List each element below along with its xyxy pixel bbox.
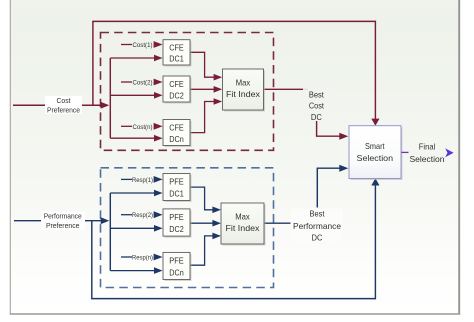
dashed group box (performance / PFE group) bbox=[101, 168, 274, 288]
svg-text:CFE: CFE bbox=[169, 123, 184, 133]
arrowhead into PFE DC2 lower left bbox=[154, 225, 163, 232]
arrowhead down into smart selection top bbox=[371, 119, 379, 126]
wire: feed to CFE DC1 bbox=[110, 57, 155, 59]
svg-text:Selection: Selection bbox=[410, 154, 445, 164]
arrowhead Cost(2) into CFE DC2 bbox=[154, 79, 163, 86]
svg-text:Cost(1): Cost(1) bbox=[133, 42, 153, 49]
wire: feed to PFE DC1 bbox=[110, 192, 155, 194]
svg-text:Best: Best bbox=[310, 209, 326, 219]
block smart selection bbox=[349, 126, 403, 180]
block CFE DCn bbox=[163, 120, 192, 148]
wire: PFE DC2 output to max fit index bbox=[190, 222, 215, 224]
dashed group box (cost / CFE group) bbox=[101, 33, 274, 151]
arrowhead into PFE DCn lower left bbox=[154, 267, 163, 274]
svg-text:CFE: CFE bbox=[169, 79, 184, 89]
wire: Best Performance DC to smart selection bbox=[317, 168, 341, 207]
wire: cost distribution vertical bbox=[109, 58, 111, 138]
wire: cost max fit index output to Best Cost DC bbox=[264, 88, 308, 90]
wire: cost preference main line bbox=[13, 104, 105, 106]
arrowhead into CFE DC2 lower left bbox=[154, 92, 163, 99]
wire: Resp(2) input stub bbox=[121, 214, 132, 216]
svg-text:Performance: Performance bbox=[44, 211, 82, 220]
wire: Resp(n) input stub bbox=[121, 256, 132, 258]
wire: smart selection output stub (purple) bbox=[401, 151, 408, 153]
arrowhead into perf max fit index (mid input) bbox=[212, 220, 221, 227]
block CFE DC1 bbox=[163, 40, 192, 67]
wire: perf max fit index output to Best Performance DC bbox=[264, 222, 291, 224]
svg-text:PFE: PFE bbox=[169, 177, 184, 187]
block cost max fit index bbox=[223, 69, 266, 112]
arrowhead into CFE DCn lower left bbox=[154, 135, 163, 142]
svg-text:DC1: DC1 bbox=[169, 188, 184, 198]
block PFE DC1 bbox=[163, 174, 192, 203]
svg-text:Resp(1): Resp(1) bbox=[132, 177, 153, 184]
node label final selection bbox=[410, 141, 445, 164]
arrowhead into CFE DC1 lower left bbox=[154, 55, 163, 62]
arrowhead Resp(1) into PFE DC1 bbox=[154, 176, 163, 183]
arrowhead into perf max fit index (top input) bbox=[212, 207, 221, 214]
wire: CFE DCn output to max fit index bbox=[190, 102, 215, 133]
wire: CFE DC2 output to max fit index bbox=[190, 88, 215, 90]
svg-text:DC2: DC2 bbox=[169, 90, 184, 100]
frame right border bbox=[458, 0, 460, 315]
wire: PFE DC1 output to max fit index bbox=[190, 187, 215, 210]
svg-text:Performance: Performance bbox=[293, 221, 341, 231]
arrowhead into cost distribution node bbox=[101, 102, 110, 109]
svg-text:Cost: Cost bbox=[309, 101, 325, 111]
svg-text:DCn: DCn bbox=[169, 134, 184, 144]
node label cost preference bbox=[45, 96, 82, 115]
arrowhead Resp(n) into PFE DCn bbox=[154, 254, 163, 261]
wire: Resp(1) input stub bbox=[121, 178, 132, 180]
svg-text:Cost(n): Cost(n) bbox=[133, 124, 153, 131]
svg-text:Best: Best bbox=[309, 89, 325, 99]
arrowhead into perf max fit index (bottom input) bbox=[212, 233, 221, 240]
arrowhead final selection (purple) bbox=[445, 148, 453, 157]
svg-text:Selection: Selection bbox=[357, 153, 394, 163]
frame left border bbox=[9, 0, 11, 315]
svg-text:Smart: Smart bbox=[365, 141, 385, 151]
wire: feed to PFE DC2 bbox=[110, 227, 155, 229]
svg-text:PFE: PFE bbox=[169, 256, 184, 266]
svg-text:Final: Final bbox=[419, 141, 436, 151]
block CFE DC2 bbox=[163, 76, 192, 104]
arrowhead Cost(n) into CFE DCn bbox=[154, 123, 163, 130]
svg-text:Cost(2): Cost(2) bbox=[133, 80, 153, 87]
arrowhead Cost(1) into CFE DC1 bbox=[154, 41, 163, 48]
block performance max fit index bbox=[221, 203, 266, 246]
wire: feed to CFE DCn bbox=[110, 137, 155, 139]
wire: Best Cost DC to smart selection bbox=[317, 121, 341, 136]
arrowhead into max fit index (mid input) bbox=[214, 86, 223, 93]
svg-text:Preference: Preference bbox=[46, 221, 80, 230]
block PFE DC2 bbox=[163, 209, 192, 238]
svg-text:Cost: Cost bbox=[57, 96, 71, 105]
svg-text:Preference: Preference bbox=[47, 105, 80, 114]
svg-text:Fit Index: Fit Index bbox=[226, 223, 261, 233]
frame bottom border bbox=[10, 313, 460, 315]
svg-text:DC: DC bbox=[312, 232, 323, 242]
arrowhead into PFE DC1 lower left bbox=[154, 190, 163, 197]
arrowhead into smart selection left (cost) bbox=[339, 133, 348, 140]
svg-text:DC1: DC1 bbox=[169, 54, 184, 64]
node label best cost DC bbox=[303, 88, 330, 122]
svg-text:Max: Max bbox=[236, 78, 251, 88]
wire: feed to CFE DC2 bbox=[110, 94, 155, 96]
svg-text:Resp(2): Resp(2) bbox=[132, 212, 153, 219]
arrowhead into smart selection left (performance) bbox=[339, 165, 348, 172]
svg-text:DCn: DCn bbox=[169, 267, 184, 277]
svg-text:Max: Max bbox=[235, 212, 250, 222]
arrowhead Resp(2) into PFE DC2 bbox=[154, 211, 163, 218]
arrowhead up into smart selection bottom bbox=[371, 178, 379, 185]
wire: cost branch up and across top to smart selection bbox=[93, 21, 376, 119]
svg-text:PFE: PFE bbox=[169, 212, 184, 222]
svg-text:CFE: CFE bbox=[169, 42, 184, 52]
wire: performance preference main line bbox=[14, 220, 105, 222]
node label best performance DC bbox=[291, 209, 343, 243]
wire: CFE DC1 output to max fit index bbox=[190, 52, 215, 77]
arrowhead into performance distribution node bbox=[101, 217, 110, 224]
arrowhead into max fit index (bottom input) bbox=[214, 98, 223, 105]
wire: Cost(1) input stub bbox=[121, 44, 132, 46]
wire: feed to PFE DCn bbox=[110, 270, 155, 272]
wire: Cost(2) input stub bbox=[121, 81, 132, 83]
svg-text:Resp(n): Resp(n) bbox=[132, 255, 153, 262]
node label performance preference bbox=[41, 211, 85, 230]
wire: Cost(n) input stub bbox=[121, 125, 132, 127]
svg-text:Fit Index: Fit Index bbox=[226, 89, 261, 99]
wire: performance distribution vertical bbox=[109, 193, 111, 271]
svg-text:DC2: DC2 bbox=[169, 224, 184, 234]
wire: PFE DCn output to max fit index bbox=[190, 236, 215, 265]
arrowhead into max fit index (top input) bbox=[214, 74, 223, 81]
svg-text:DC: DC bbox=[311, 112, 322, 122]
block PFE DCn bbox=[163, 252, 192, 281]
wire: performance branch down and across bottom to smart selection bbox=[92, 185, 376, 299]
